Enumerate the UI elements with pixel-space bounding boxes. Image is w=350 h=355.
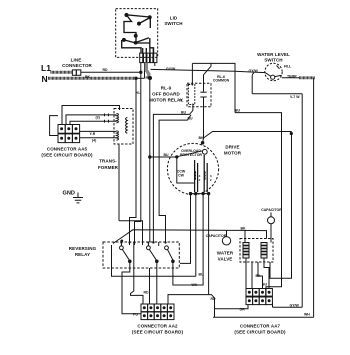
lid switch connector <box>140 48 157 63</box>
capacitor right <box>268 213 275 239</box>
transformer primary coils <box>117 113 119 140</box>
drive motor circle <box>167 143 218 194</box>
svg-text:(4): (4) <box>92 139 96 143</box>
svg-text:CONNECTOR: CONNECTOR <box>62 63 92 68</box>
wire bus left riser <box>214 309 216 317</box>
svg-text:N: N <box>42 74 48 84</box>
svg-text:RD: RD <box>146 76 152 80</box>
svg-text:BU: BU <box>199 273 205 277</box>
wire fill drop to bottom bus <box>313 78 315 317</box>
transformer secondary coil <box>126 117 128 133</box>
svg-text:OFF BOARD: OFF BOARD <box>152 92 180 97</box>
reversing relay bottom wire to AA2 elbow <box>131 268 144 304</box>
relay RL-9 contact <box>200 86 206 104</box>
svg-text:WATER: WATER <box>217 251 234 256</box>
svg-text:WH: WH <box>304 313 310 317</box>
transformer lead ticks <box>105 114 109 123</box>
connector AA7 <box>246 289 272 305</box>
ground <box>73 193 83 203</box>
svg-text:CONNECTOR AA7: CONNECTOR AA7 <box>240 324 281 329</box>
wire V-7W branch down from through wire <box>252 73 254 94</box>
svg-text:(SEE CIRCUIT BOARD): (SEE CIRCUIT BOARD) <box>234 330 286 335</box>
svg-text:CW: CW <box>178 174 185 178</box>
reversing relay contact 2 <box>134 242 158 268</box>
wire lid connector pin to L1 <box>140 63 142 73</box>
wire L1 hatched section <box>51 71 72 74</box>
reversing relay contact 3 <box>159 242 175 268</box>
wire L1 to lid connector <box>81 71 141 73</box>
svg-text:L1: L1 <box>41 63 51 73</box>
wire N plain end <box>136 77 145 79</box>
transformer primary leads pair 1 <box>100 115 117 121</box>
wire OR to AA7 <box>215 305 249 309</box>
wire RL-6 common diagonal <box>204 63 212 74</box>
svg-text:SWITCH: SWITCH <box>264 57 282 62</box>
svg-text:(SEE CIRCUIT BOARD): (SEE CIRCUIT BOARD) <box>132 330 184 335</box>
connector AA2 <box>141 304 174 320</box>
svg-text:RD: RD <box>211 297 217 301</box>
svg-text:BU: BU <box>164 153 170 157</box>
svg-text:COMMON: COMMON <box>213 79 230 83</box>
wire y112 to right <box>235 113 282 296</box>
svg-text:CAPACITOR: CAPACITOR <box>261 208 282 212</box>
relay RL-9 enclosure <box>187 83 211 107</box>
reversing relay bottom wire long horizontal <box>112 268 196 276</box>
svg-text:BU: BU <box>235 108 241 112</box>
svg-text:OR: OR <box>240 307 246 311</box>
wire lid connector pin to through wire <box>154 63 156 66</box>
left bus wire B2 from L1 <box>135 72 141 245</box>
svg-text:RD: RD <box>103 68 109 72</box>
left bus wire B3 RD <box>149 157 151 242</box>
left bus wire B4 <box>152 241 154 243</box>
svg-text:(3): (3) <box>96 115 100 119</box>
svg-text:LINE: LINE <box>71 58 82 63</box>
svg-text:MOTOR RELAY: MOTOR RELAY <box>149 98 183 103</box>
wire lid connector cable drop <box>146 63 149 78</box>
svg-text:RD: RD <box>144 290 150 294</box>
reversing relay contact 1 <box>112 242 132 268</box>
wire fill out to right <box>282 77 299 79</box>
svg-text:FORMER: FORMER <box>98 165 119 170</box>
svg-text:LID: LID <box>170 16 178 21</box>
wire lid connector pin to N <box>144 63 146 79</box>
motor bottom wire 1 to reversing relay <box>180 194 191 264</box>
svg-text:PROTECTOR: PROTECTOR <box>180 153 202 157</box>
water valve solenoid 2 <box>261 243 267 259</box>
water valve solenoid 1 <box>243 243 249 259</box>
relay RL-9 top wire y63 <box>192 63 235 112</box>
svg-text:RELAY: RELAY <box>75 252 90 257</box>
wire relay contact down to motor <box>202 104 205 143</box>
wire lid connector pin long drop <box>149 78 151 157</box>
line connector symbol <box>72 70 80 75</box>
lid switch contacts <box>122 14 154 53</box>
svg-text:GND: GND <box>63 191 75 197</box>
water valve enclosure <box>240 239 273 263</box>
svg-text:V-7 W: V-7 W <box>290 95 300 99</box>
motor bottom wire 2 <box>195 194 197 277</box>
svg-text:BK: BK <box>199 136 205 140</box>
svg-text:BK: BK <box>85 75 91 79</box>
svg-text:BU: BU <box>181 111 187 115</box>
wire motor feed to right bus y131 <box>204 132 292 139</box>
overload protector <box>176 142 208 159</box>
svg-text:GY/W: GY/W <box>249 69 259 73</box>
svg-text:CAPACITOR: CAPACITOR <box>206 234 227 238</box>
wire valve to AA7 pins <box>246 262 252 289</box>
svg-text:VALVE: VALVE <box>218 257 233 262</box>
wire N hatched <box>48 77 137 80</box>
svg-text:TRANS-: TRANS- <box>99 159 117 164</box>
lid switch enclosure <box>116 9 158 58</box>
svg-text:REVERSING: REVERSING <box>69 246 97 251</box>
motor bottom wire 4 <box>208 194 210 295</box>
wire relay coil output to left elbows <box>153 104 193 243</box>
wire motor left BU <box>150 156 177 158</box>
svg-text:DRIVE: DRIVE <box>225 145 239 150</box>
wire valve solenoid feeds <box>245 231 271 262</box>
wire through lid to water level switch <box>151 69 266 72</box>
transformer top lead <box>62 106 120 125</box>
water level switch contacts <box>265 66 281 80</box>
svg-text:MOTOR: MOTOR <box>224 151 242 156</box>
svg-text:GY/W: GY/W <box>166 67 176 71</box>
svg-text:FILL: FILL <box>284 64 292 68</box>
transformer enclosure <box>114 109 133 145</box>
transformer bottom lead <box>119 144 143 245</box>
wire diag to capacitor run <box>113 230 267 244</box>
motor bottom wire 3 <box>173 194 203 285</box>
reversing relay bottom wires straight <box>150 268 157 304</box>
water level switch circle <box>265 63 282 80</box>
svg-text:WH: WH <box>192 283 198 287</box>
capacitor left <box>222 231 230 245</box>
svg-text:SWITCH: SWITCH <box>164 21 182 26</box>
relay RL-9 coil <box>188 85 194 105</box>
connector AA5 <box>58 125 80 143</box>
svg-text:CONNECTOR AA5: CONNECTOR AA5 <box>47 147 88 152</box>
svg-text:TEMP: TEMP <box>287 75 297 79</box>
reversing relay bottom wire to AA2 pin row 2 <box>122 268 141 314</box>
transformer primary leads pair 2 <box>80 131 117 137</box>
svg-text:BK: BK <box>256 274 262 278</box>
svg-text:BK: BK <box>241 227 247 231</box>
svg-text:(SEE CIRCUIT BOARD): (SEE CIRCUIT BOARD) <box>41 153 93 158</box>
wire AA2 to bus riser <box>168 295 215 309</box>
wire relay coil riser <box>191 63 193 85</box>
motor windings <box>189 155 210 195</box>
svg-text:GY/W: GY/W <box>290 303 300 307</box>
bottom bus wire <box>213 316 314 318</box>
svg-text:Y-R: Y-R <box>90 132 96 136</box>
svg-text:BU: BU <box>188 116 194 120</box>
svg-text:BU: BU <box>262 283 268 287</box>
left bus wire B1 from N <box>130 78 137 245</box>
wire AA5 left loop <box>50 116 58 136</box>
svg-text:PU: PU <box>133 312 138 316</box>
wire motor internal hook <box>177 157 195 183</box>
junction dots L1 N <box>140 71 142 73</box>
reversing relay entry dots <box>120 241 166 243</box>
svg-text:RL-9: RL-9 <box>161 86 172 91</box>
svg-text:CONNECTOR AA2: CONNECTOR AA2 <box>137 324 178 329</box>
reversing relay enclosure <box>103 242 179 268</box>
